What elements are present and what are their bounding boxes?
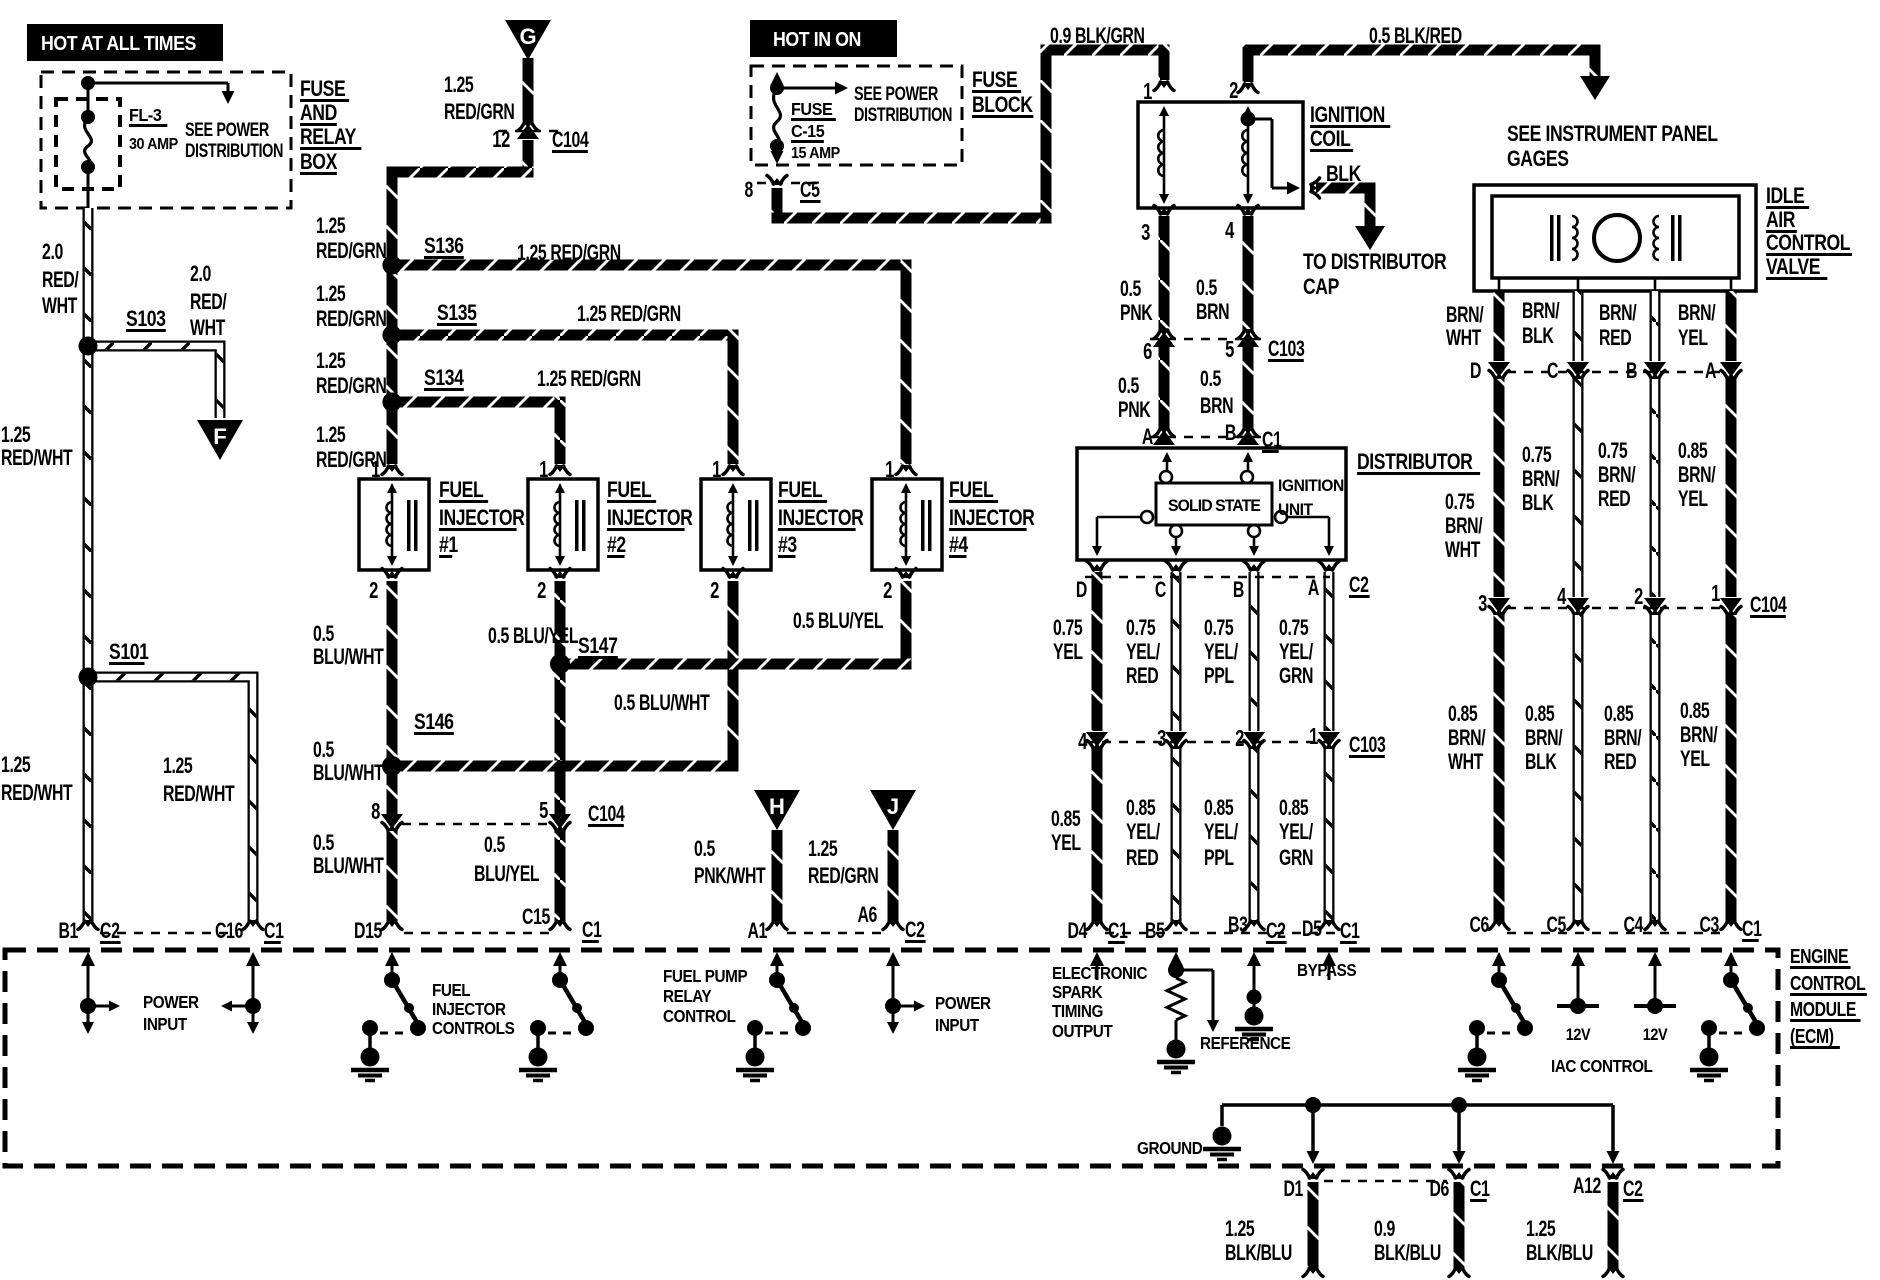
svg-text:D1: D1 [1283, 1178, 1303, 1202]
svg-text:C1: C1 [1340, 920, 1360, 944]
svg-text:0.75: 0.75 [1445, 491, 1475, 515]
svg-text:BRN/: BRN/ [1525, 727, 1563, 751]
svg-text:INJECTOR: INJECTOR [778, 506, 863, 530]
svg-text:D5: D5 [1302, 918, 1322, 942]
svg-text:1: 1 [1309, 724, 1318, 749]
svg-text:0.75: 0.75 [1204, 617, 1234, 641]
svg-text:SEE POWER: SEE POWER [854, 83, 938, 104]
svg-text:12: 12 [492, 127, 510, 152]
svg-text:CONTROL: CONTROL [1766, 231, 1850, 255]
svg-text:FUEL: FUEL [439, 478, 484, 502]
svg-text:DISTRIBUTION: DISTRIBUTION [185, 140, 283, 161]
svg-text:A1: A1 [747, 920, 767, 944]
svg-text:2: 2 [1229, 78, 1238, 103]
svg-text:BLK: BLK [1522, 492, 1554, 516]
svg-text:WHT: WHT [1446, 327, 1482, 351]
svg-text:A: A [1705, 360, 1717, 384]
svg-text:C2: C2 [905, 919, 925, 943]
svg-text:0.9 BLK/GRN: 0.9 BLK/GRN [1050, 25, 1145, 49]
svg-text:GAGES: GAGES [1507, 147, 1569, 171]
svg-text:0.85: 0.85 [1448, 703, 1478, 727]
svg-text:YEL: YEL [1678, 327, 1708, 351]
svg-text:PPL: PPL [1204, 847, 1234, 871]
svg-text:0.5 BLU/WHT: 0.5 BLU/WHT [614, 692, 710, 716]
svg-text:HOT AT ALL TIMES: HOT AT ALL TIMES [41, 33, 196, 55]
svg-text:C: C [1155, 579, 1167, 603]
svg-text:BLU/WHT: BLU/WHT [313, 646, 384, 670]
svg-text:BRN: BRN [1200, 395, 1233, 419]
svg-text:0.5: 0.5 [1120, 278, 1142, 302]
svg-text:C3: C3 [1699, 914, 1719, 938]
svg-text:TO DISTRIBUTOR: TO DISTRIBUTOR [1303, 250, 1446, 274]
svg-text:2.0: 2.0 [42, 241, 63, 265]
svg-text:S134: S134 [424, 366, 464, 390]
svg-text:0.85: 0.85 [1204, 797, 1234, 821]
svg-text:D15: D15 [354, 920, 383, 944]
svg-text:MODULE: MODULE [1790, 998, 1856, 1020]
svg-text:0.5: 0.5 [313, 832, 335, 856]
svg-text:BRN/: BRN/ [1598, 464, 1636, 488]
svg-text:A: A [1142, 426, 1154, 450]
svg-text:8: 8 [745, 179, 754, 203]
svg-text:RED: RED [1126, 847, 1159, 871]
svg-text:1.25: 1.25 [1225, 1218, 1255, 1242]
svg-text:0.75: 0.75 [1053, 617, 1083, 641]
svg-text:1.25 RED/GRN: 1.25 RED/GRN [517, 242, 621, 266]
svg-text:12V: 12V [1643, 1026, 1668, 1044]
svg-text:RED: RED [1126, 665, 1159, 689]
svg-text:RED/WHT: RED/WHT [1, 782, 73, 806]
svg-text:BLK: BLK [1522, 325, 1554, 349]
svg-text:BLU/YEL: BLU/YEL [474, 863, 540, 887]
svg-text:RED/GRN: RED/GRN [444, 101, 514, 125]
svg-text:#2: #2 [607, 533, 626, 557]
svg-text:C: C [1547, 360, 1559, 384]
svg-text:YEL: YEL [1053, 641, 1083, 665]
svg-text:1.25: 1.25 [1, 754, 31, 778]
svg-text:S103: S103 [126, 307, 166, 331]
svg-text:BLK/BLU: BLK/BLU [1526, 1242, 1593, 1266]
svg-text:C2: C2 [1349, 574, 1369, 598]
svg-text:BLU/WHT: BLU/WHT [313, 762, 384, 786]
svg-text:WHT: WHT [1448, 751, 1484, 775]
svg-text:#4: #4 [949, 533, 968, 557]
svg-text:C6: C6 [1469, 914, 1489, 938]
svg-text:A6: A6 [857, 904, 877, 928]
svg-text:YEL: YEL [1678, 488, 1708, 512]
svg-text:1.25 RED/GRN: 1.25 RED/GRN [537, 368, 641, 392]
svg-text:POWER: POWER [935, 993, 991, 1013]
svg-text:BRN/: BRN/ [1445, 515, 1483, 539]
svg-text:IDLE: IDLE [1766, 184, 1805, 208]
svg-text:1.25: 1.25 [316, 283, 346, 307]
svg-text:0.75: 0.75 [1522, 444, 1552, 468]
svg-text:CONTROLS: CONTROLS [432, 1018, 515, 1038]
svg-text:IAC CONTROL: IAC CONTROL [1551, 1056, 1653, 1076]
svg-text:RED/: RED/ [42, 269, 79, 293]
svg-text:0.75: 0.75 [1598, 440, 1628, 464]
svg-text:BRN/: BRN/ [1448, 727, 1486, 751]
svg-text:WHT: WHT [190, 317, 226, 341]
svg-text:B: B [1225, 422, 1236, 446]
svg-text:A: A [1308, 577, 1320, 601]
svg-text:FUSE: FUSE [300, 77, 345, 101]
svg-text:BRN/: BRN/ [1522, 468, 1560, 492]
svg-text:12V: 12V [1566, 1026, 1591, 1044]
svg-text:BLK/BLU: BLK/BLU [1374, 1242, 1441, 1266]
svg-text:INJECTOR: INJECTOR [607, 506, 692, 530]
svg-text:0.5: 0.5 [1118, 375, 1140, 399]
svg-text:RED/GRN: RED/GRN [316, 375, 386, 399]
svg-text:WHT: WHT [42, 295, 78, 319]
svg-text:1.25: 1.25 [1526, 1218, 1556, 1242]
svg-text:8: 8 [371, 799, 380, 824]
svg-text:DISTRIBUTOR: DISTRIBUTOR [1357, 450, 1473, 474]
svg-text:15 AMP: 15 AMP [791, 144, 840, 162]
svg-text:RED: RED [1604, 751, 1637, 775]
svg-text:YEL/: YEL/ [1279, 821, 1314, 845]
svg-text:C104: C104 [552, 129, 589, 153]
svg-text:2.0: 2.0 [190, 263, 211, 287]
svg-text:B3: B3 [1228, 914, 1248, 938]
svg-text:1.25: 1.25 [1, 424, 31, 448]
svg-text:FUEL: FUEL [607, 478, 652, 502]
svg-text:0.5 BLU/YEL: 0.5 BLU/YEL [488, 625, 579, 649]
svg-text:BRN/: BRN/ [1604, 727, 1642, 751]
svg-text:FUEL: FUEL [778, 478, 823, 502]
svg-text:2: 2 [1235, 726, 1244, 751]
svg-text:0.5: 0.5 [313, 739, 335, 763]
svg-text:HOT IN ON: HOT IN ON [773, 29, 861, 51]
svg-text:YEL/: YEL/ [1204, 821, 1239, 845]
svg-text:GRN: GRN [1279, 847, 1313, 871]
svg-text:DISTRIBUTION: DISTRIBUTION [854, 104, 952, 125]
svg-text:YEL/: YEL/ [1204, 641, 1239, 665]
svg-text:3: 3 [1141, 220, 1150, 245]
svg-text:SPARK: SPARK [1052, 982, 1103, 1002]
svg-text:C15: C15 [522, 906, 551, 930]
svg-text:YEL/: YEL/ [1279, 641, 1314, 665]
svg-text:6: 6 [1143, 339, 1152, 364]
svg-text:BRN/: BRN/ [1446, 304, 1484, 328]
svg-text:0.9: 0.9 [1374, 1218, 1395, 1242]
svg-text:INJECTOR: INJECTOR [432, 999, 506, 1019]
svg-text:BRN/: BRN/ [1678, 464, 1716, 488]
svg-text:S147: S147 [578, 634, 618, 658]
svg-text:VALVE: VALVE [1766, 255, 1820, 279]
svg-text:OUTPUT: OUTPUT [1052, 1021, 1113, 1041]
svg-text:5: 5 [539, 798, 548, 823]
svg-text:1.25: 1.25 [316, 424, 346, 448]
svg-text:0.85: 0.85 [1051, 808, 1081, 832]
svg-text:BLU/WHT: BLU/WHT [313, 855, 384, 879]
svg-text:C5: C5 [1546, 914, 1566, 938]
svg-text:C1: C1 [582, 919, 602, 943]
svg-text:RED/: RED/ [190, 291, 227, 315]
svg-text:C4: C4 [1623, 914, 1643, 938]
svg-text:1.25 RED/GRN: 1.25 RED/GRN [577, 303, 681, 327]
svg-text:B: B [1233, 579, 1244, 603]
svg-text:4: 4 [1078, 729, 1088, 754]
svg-text:PNK: PNK [1118, 399, 1151, 423]
svg-text:BLK/BLU: BLK/BLU [1225, 1242, 1292, 1266]
svg-text:RELAY: RELAY [663, 986, 712, 1006]
svg-text:30 AMP: 30 AMP [129, 135, 178, 153]
svg-text:YEL: YEL [1680, 748, 1710, 772]
svg-text:0.5: 0.5 [694, 838, 716, 862]
svg-text:FL-3: FL-3 [129, 105, 161, 125]
svg-text:0.85: 0.85 [1525, 703, 1555, 727]
svg-text:0.85: 0.85 [1126, 797, 1156, 821]
svg-text:0.5: 0.5 [1196, 277, 1218, 301]
svg-text:BRN/: BRN/ [1599, 302, 1637, 326]
svg-text:INJECTOR: INJECTOR [949, 506, 1034, 530]
svg-text:C1: C1 [1108, 920, 1128, 944]
svg-text:RED: RED [1598, 488, 1631, 512]
svg-text:3: 3 [1478, 591, 1487, 616]
svg-text:RED: RED [1599, 327, 1632, 351]
svg-text:YEL: YEL [1051, 832, 1081, 856]
svg-text:C103: C103 [1349, 734, 1385, 758]
svg-text:IGNITION: IGNITION [1278, 476, 1344, 495]
svg-text:RELAY: RELAY [300, 125, 356, 149]
svg-text:FUEL PUMP: FUEL PUMP [663, 966, 748, 986]
svg-text:4: 4 [1557, 584, 1567, 609]
svg-text:TIMING: TIMING [1052, 1001, 1103, 1021]
svg-text:3: 3 [1157, 726, 1166, 751]
svg-text:WHT: WHT [1445, 539, 1481, 563]
svg-text:0.5: 0.5 [484, 834, 506, 858]
svg-text:G: G [519, 24, 536, 49]
svg-text:RED/GRN: RED/GRN [808, 865, 878, 889]
svg-text:0.5: 0.5 [313, 623, 335, 647]
svg-text:INPUT: INPUT [143, 1014, 188, 1034]
svg-text:PNK/WHT: PNK/WHT [694, 865, 766, 889]
svg-text:2: 2 [537, 578, 546, 603]
svg-text:S101: S101 [109, 640, 149, 664]
svg-text:PNK: PNK [1120, 302, 1153, 326]
svg-text:CAP: CAP [1303, 275, 1339, 299]
svg-text:BOX: BOX [300, 150, 338, 174]
svg-text:D4: D4 [1067, 920, 1087, 944]
svg-text:C103: C103 [1268, 338, 1304, 362]
svg-text:CONTROL: CONTROL [663, 1006, 736, 1026]
svg-text:SEE POWER: SEE POWER [185, 119, 269, 140]
svg-text:0.85: 0.85 [1279, 797, 1309, 821]
svg-text:IGNITION: IGNITION [1310, 103, 1385, 127]
svg-text:C1: C1 [1470, 1178, 1490, 1202]
svg-text:PPL: PPL [1204, 665, 1234, 689]
svg-text:2: 2 [1634, 584, 1643, 609]
svg-text:S135: S135 [437, 301, 477, 325]
svg-text:C2: C2 [1266, 920, 1286, 944]
svg-text:C16: C16 [215, 920, 243, 944]
svg-text:GROUND: GROUND [1137, 1138, 1203, 1158]
svg-text:0.5: 0.5 [1200, 368, 1222, 392]
svg-text:RED/GRN: RED/GRN [316, 308, 386, 332]
svg-text:FUEL: FUEL [949, 478, 994, 502]
svg-text:INJECTOR: INJECTOR [439, 506, 524, 530]
svg-text:RED/WHT: RED/WHT [1, 447, 73, 471]
svg-text:FUSE: FUSE [791, 99, 832, 119]
svg-text:1: 1 [1143, 79, 1152, 104]
svg-text:0.85: 0.85 [1604, 703, 1634, 727]
svg-text:0.5 BLK/RED: 0.5 BLK/RED [1369, 25, 1462, 49]
svg-text:0.85: 0.85 [1678, 440, 1708, 464]
svg-text:C104: C104 [1750, 594, 1787, 618]
svg-text:SOLID STATE: SOLID STATE [1168, 497, 1261, 516]
svg-text:BLK: BLK [1525, 751, 1557, 775]
svg-text:1.25: 1.25 [316, 350, 346, 374]
svg-text:A12: A12 [1573, 1175, 1601, 1199]
svg-text:2: 2 [369, 578, 378, 603]
svg-text:(ECM): (ECM) [1790, 1025, 1834, 1047]
svg-text:AND: AND [300, 101, 337, 125]
svg-text:C1: C1 [264, 920, 284, 944]
svg-text:COIL: COIL [1310, 127, 1351, 151]
svg-text:S146: S146 [414, 710, 454, 734]
svg-text:FUSE: FUSE [972, 68, 1017, 92]
svg-text:1.25: 1.25 [444, 74, 474, 98]
svg-text:D: D [1470, 360, 1482, 384]
svg-text:2: 2 [710, 578, 719, 603]
svg-text:C1: C1 [1742, 918, 1762, 942]
svg-text:C104: C104 [588, 803, 625, 827]
svg-text:YEL/: YEL/ [1126, 641, 1161, 665]
svg-text:#1: #1 [439, 533, 458, 557]
svg-text:BRN/: BRN/ [1680, 724, 1718, 748]
svg-text:1.25: 1.25 [316, 215, 346, 239]
svg-text:D: D [1076, 579, 1088, 603]
svg-text:RED/GRN: RED/GRN [316, 240, 386, 264]
svg-text:POWER: POWER [143, 992, 199, 1012]
svg-text:1.25: 1.25 [163, 755, 193, 779]
svg-text:BLOCK: BLOCK [972, 93, 1033, 117]
svg-text:1.25: 1.25 [808, 838, 838, 862]
svg-text:H: H [769, 794, 785, 819]
svg-text:2: 2 [883, 578, 892, 603]
svg-text:ENGINE: ENGINE [1790, 945, 1849, 967]
svg-text:YEL/: YEL/ [1126, 821, 1161, 845]
svg-text:0.75: 0.75 [1279, 617, 1309, 641]
svg-text:AIR: AIR [1766, 208, 1795, 232]
svg-text:J: J [887, 794, 899, 819]
svg-text:B1: B1 [58, 920, 78, 944]
svg-text:1: 1 [1711, 581, 1720, 606]
svg-text:B: B [1626, 360, 1637, 384]
svg-text:BYPASS: BYPASS [1297, 960, 1356, 980]
svg-text:S136: S136 [424, 234, 464, 258]
svg-text:C2: C2 [100, 920, 120, 944]
svg-text:F: F [213, 424, 226, 449]
svg-text:0.75: 0.75 [1126, 617, 1156, 641]
svg-text:SEE INSTRUMENT PANEL: SEE INSTRUMENT PANEL [1507, 122, 1718, 146]
svg-text:0.5 BLU/YEL: 0.5 BLU/YEL [793, 610, 884, 634]
svg-text:FUEL: FUEL [432, 980, 470, 1000]
svg-text:C-15: C-15 [791, 121, 825, 141]
svg-text:0.85: 0.85 [1680, 700, 1710, 724]
svg-text:CONTROL: CONTROL [1790, 972, 1866, 994]
svg-text:B5: B5 [1145, 920, 1165, 944]
svg-text:RED/WHT: RED/WHT [163, 783, 235, 807]
svg-text:BRN: BRN [1196, 301, 1229, 325]
svg-text:INPUT: INPUT [935, 1015, 980, 1035]
svg-text:BRN/: BRN/ [1678, 302, 1716, 326]
svg-text:5: 5 [1225, 337, 1234, 362]
svg-text:ELECTRONIC: ELECTRONIC [1052, 963, 1147, 983]
svg-text:GRN: GRN [1279, 665, 1313, 689]
svg-text:#3: #3 [778, 533, 797, 557]
svg-text:BRN/: BRN/ [1522, 300, 1560, 324]
svg-text:C2: C2 [1623, 1178, 1643, 1202]
svg-text:4: 4 [1225, 218, 1235, 243]
